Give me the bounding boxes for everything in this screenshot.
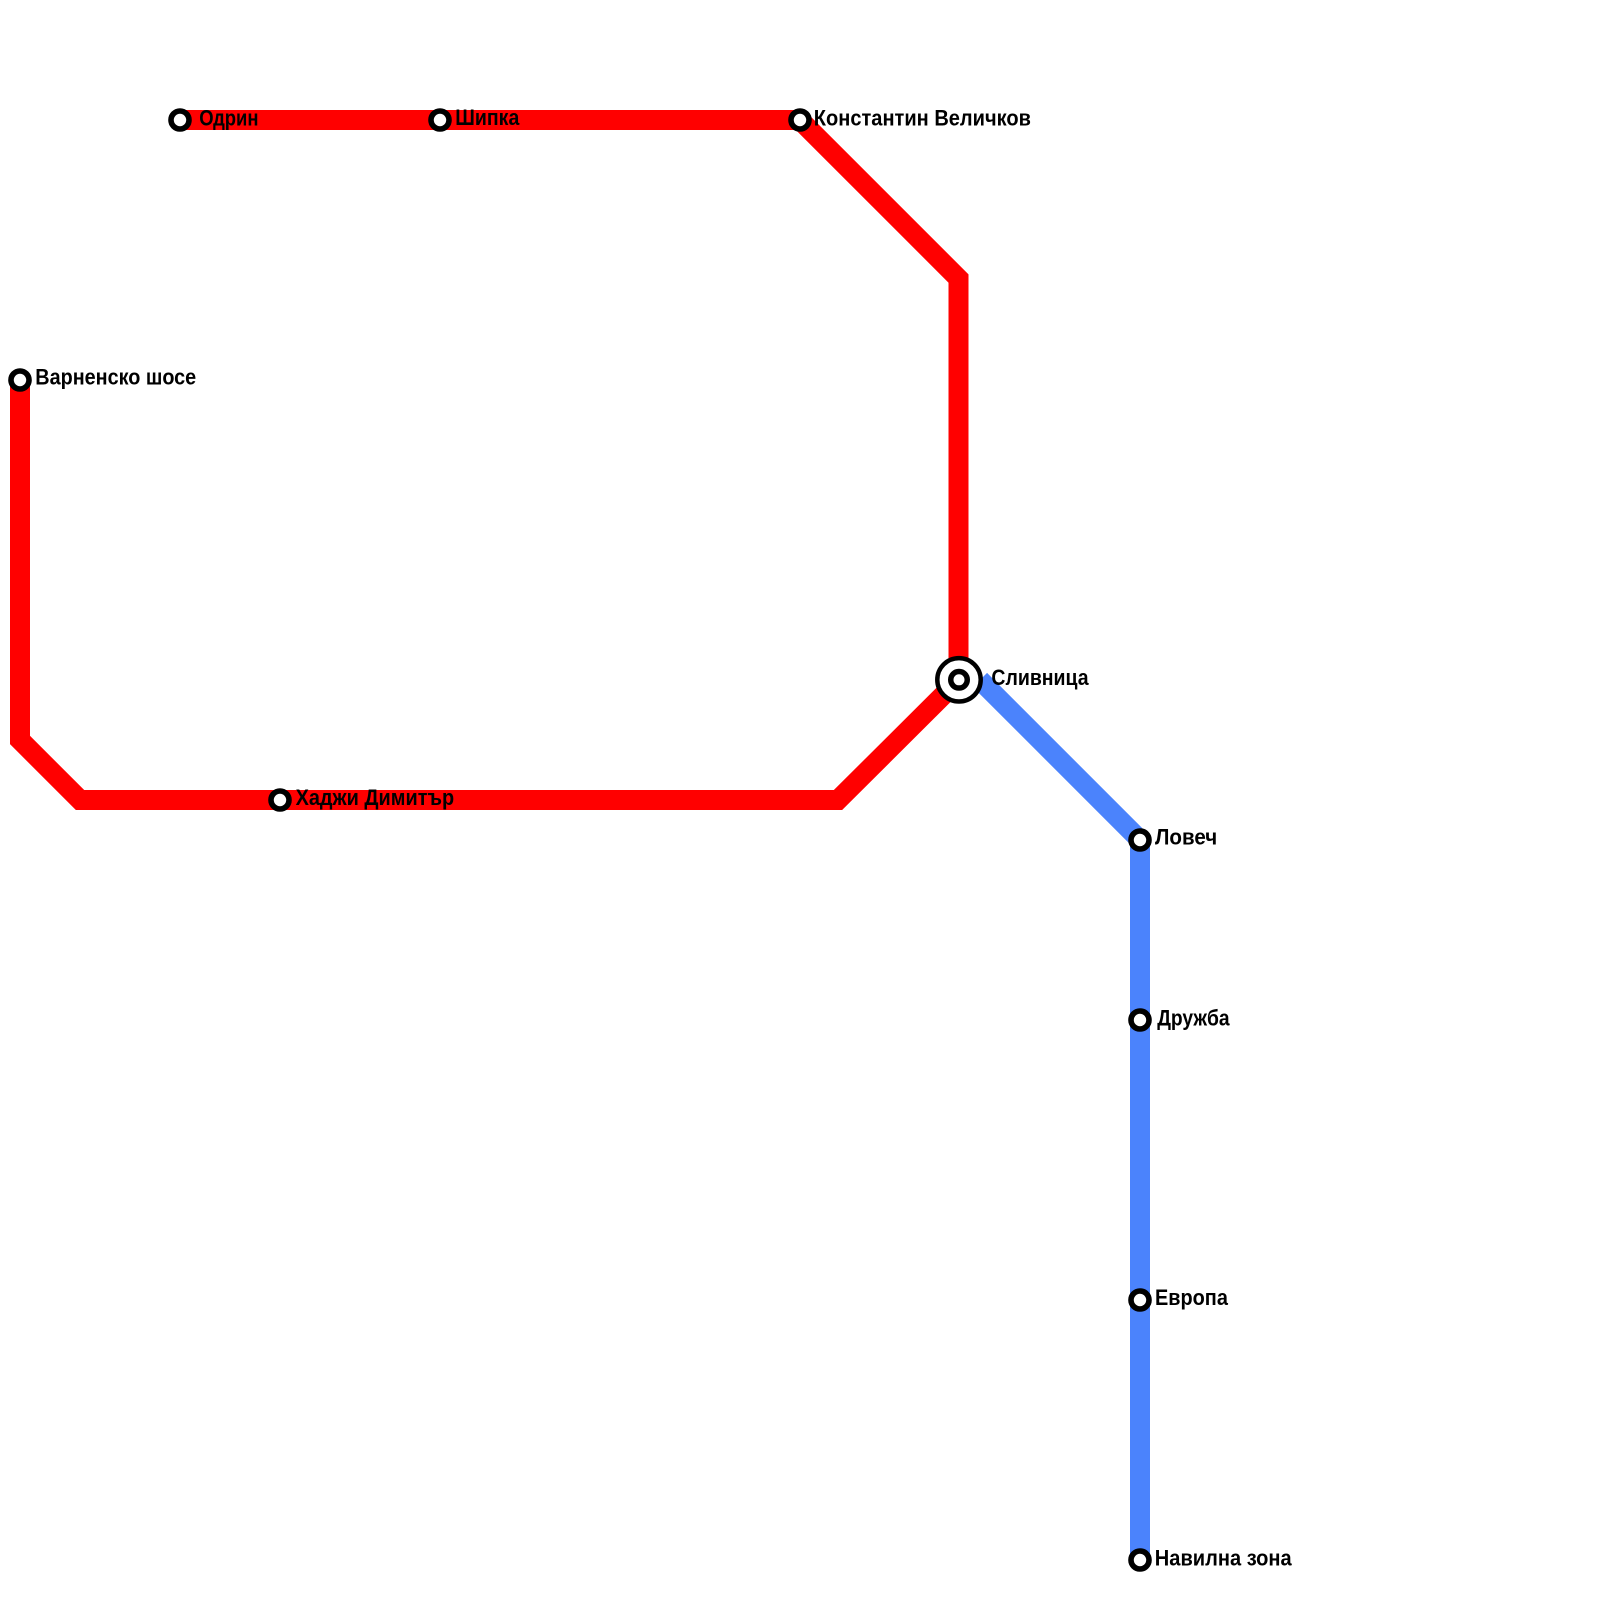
svg-text:Европа: Европа [1155, 1285, 1229, 1310]
station Ловеч [1131, 831, 1149, 849]
station Шипка [431, 111, 449, 129]
station Одрин [171, 111, 189, 129]
svg-text:Варненско шосе: Варненско шосе [35, 365, 196, 390]
station Константин Величков [791, 111, 809, 129]
svg-text:Ловеч: Ловеч [1155, 825, 1217, 850]
station Дружба [1131, 1011, 1149, 1029]
blue line M2 [980, 680, 1140, 1560]
station Навилна зона [1131, 1551, 1149, 1569]
red line M1 [20, 120, 959, 800]
interchange Сливница [937, 658, 980, 701]
station Варненско шосе [11, 371, 29, 389]
svg-text:Шипка: Шипка [455, 105, 520, 130]
svg-text:Дружба: Дружба [1157, 1006, 1230, 1031]
svg-text:Одрин: Одрин [199, 105, 258, 130]
svg-text:Константин Величков: Константин Величков [814, 105, 1031, 130]
station Хаджи Димитър [271, 791, 289, 809]
svg-text:Хаджи Димитър: Хаджи Димитър [296, 785, 455, 810]
station Европа [1131, 1291, 1149, 1309]
svg-text:Сливница: Сливница [991, 665, 1089, 690]
svg-text:Навилна зона: Навилна зона [1155, 1545, 1293, 1570]
